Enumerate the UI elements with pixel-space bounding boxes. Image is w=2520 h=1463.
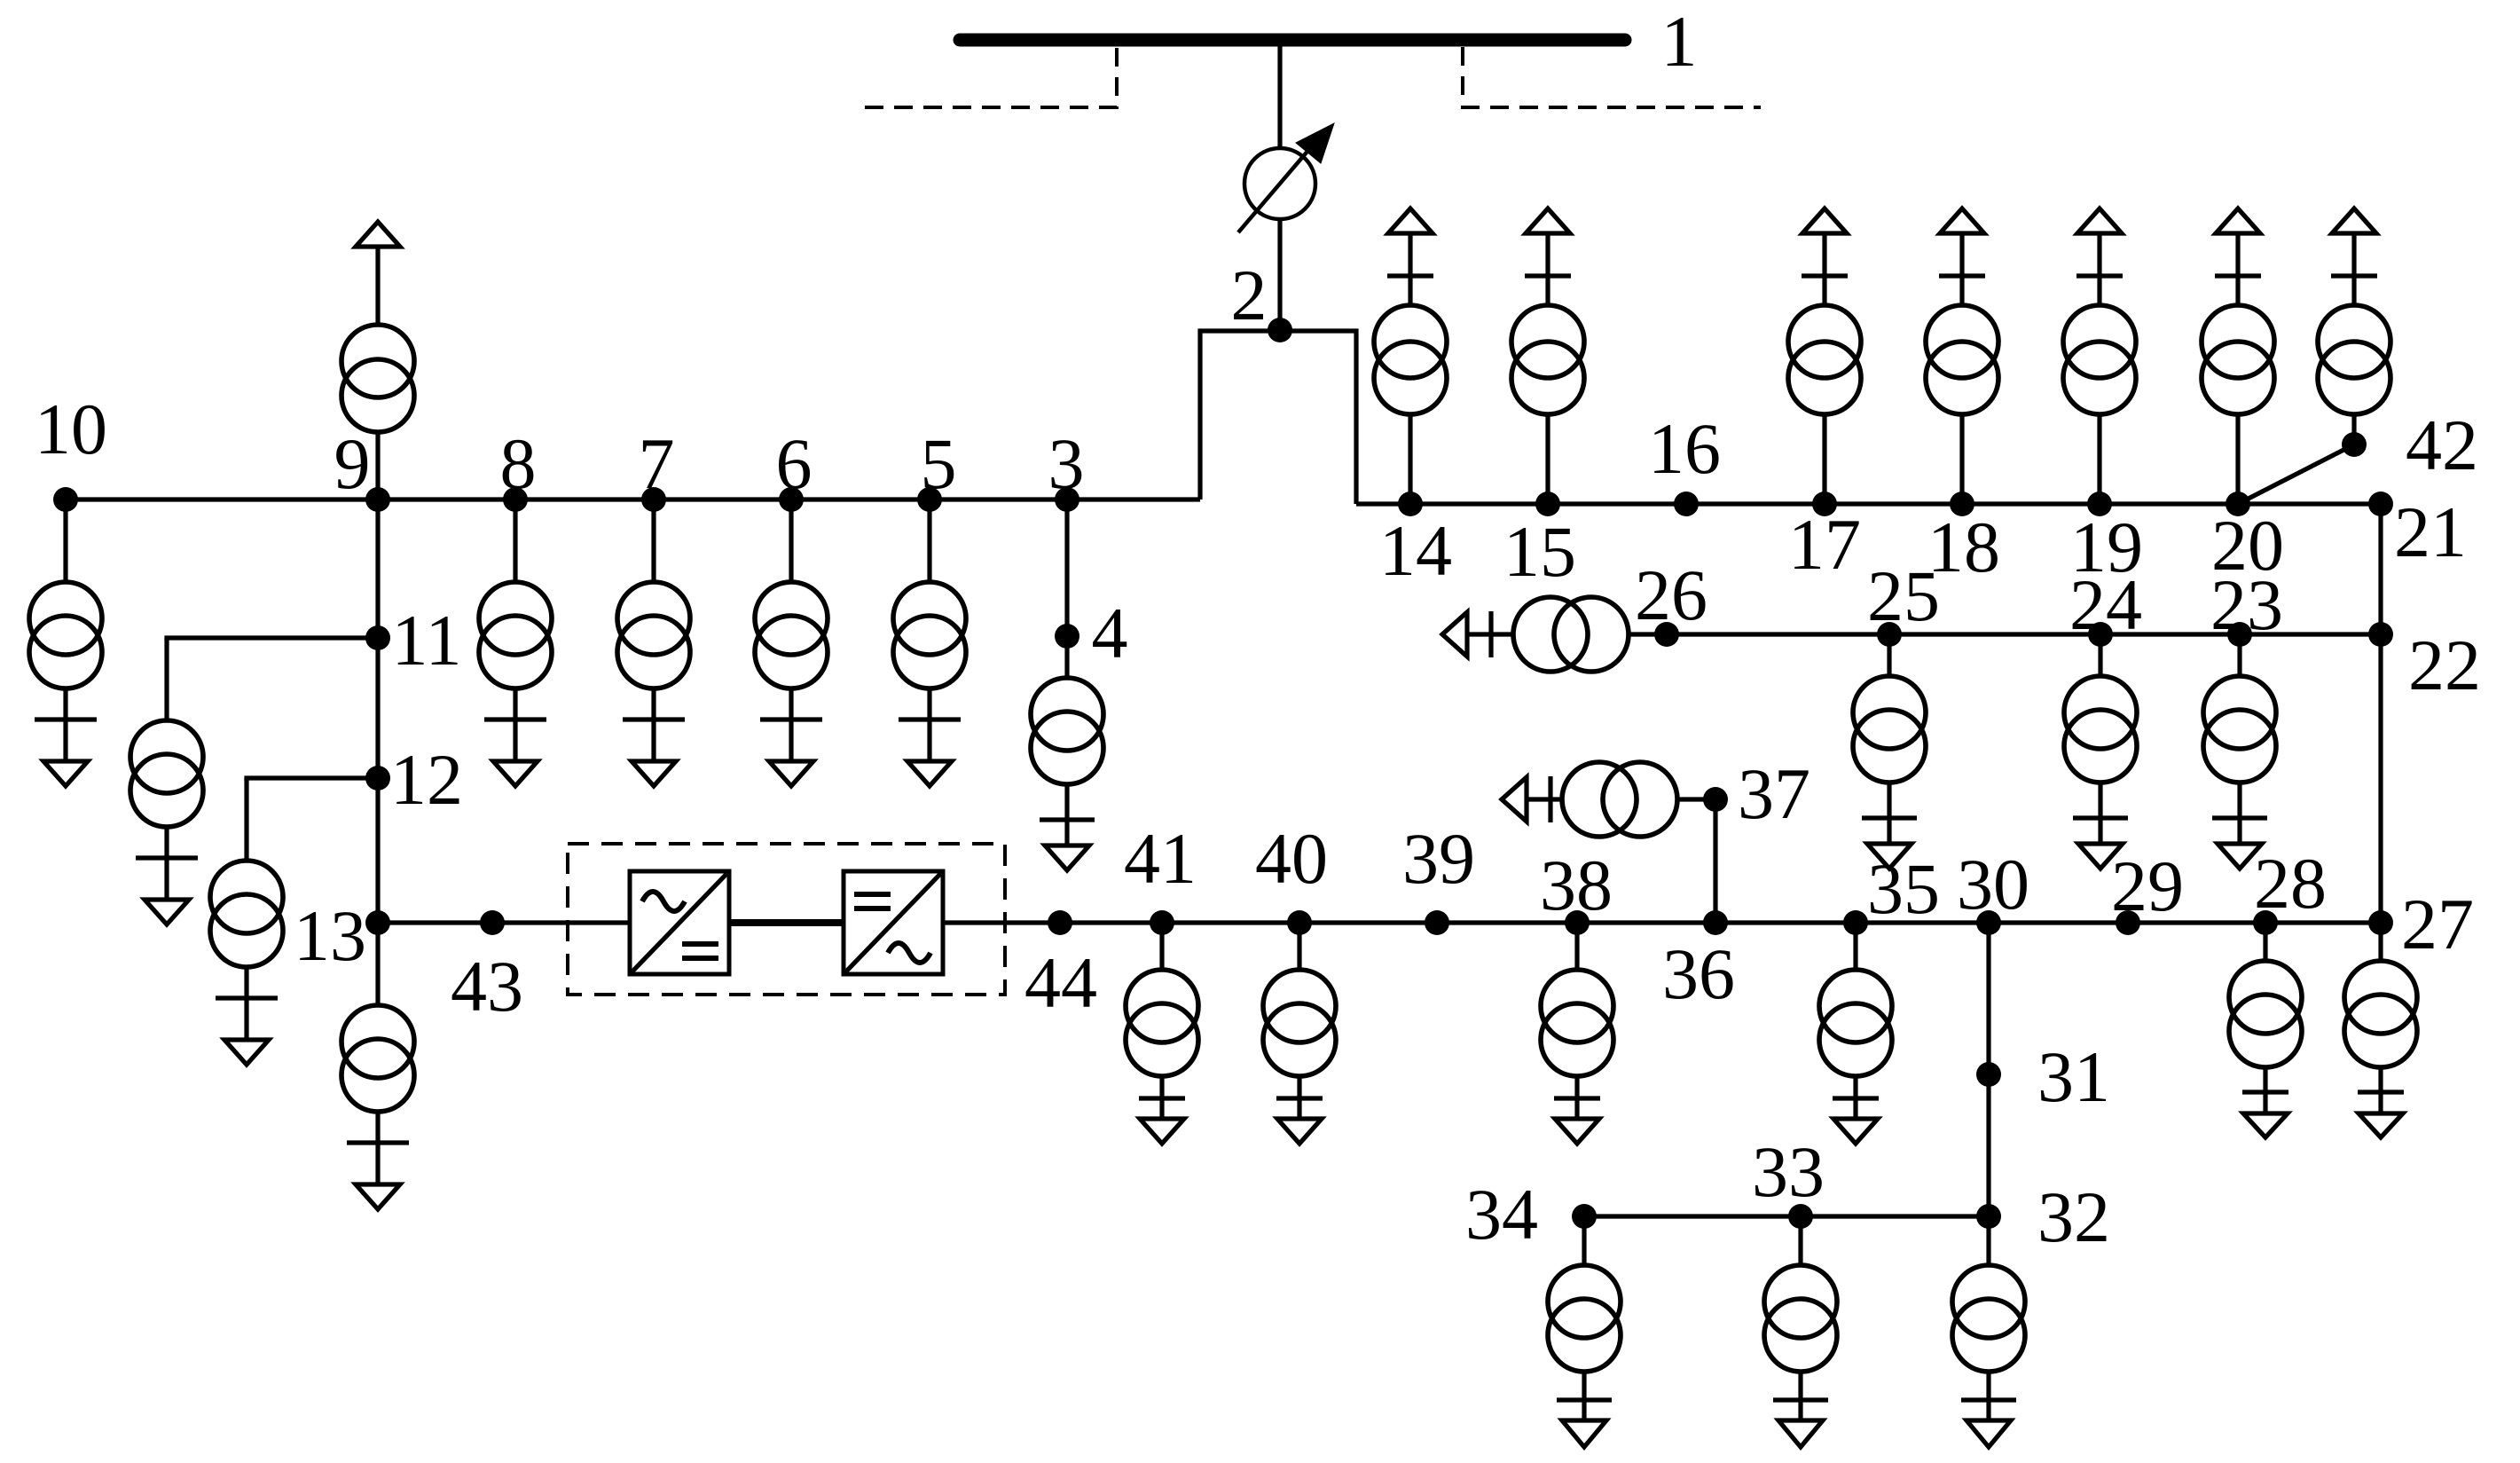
svg-text:29: 29 bbox=[2111, 846, 2184, 926]
svg-text:2: 2 bbox=[1231, 255, 1268, 335]
node 31 bbox=[1976, 1062, 2001, 1087]
svg-text:15: 15 bbox=[1503, 511, 1576, 592]
label 19 bbox=[2070, 507, 2143, 587]
svg-text:9: 9 bbox=[334, 423, 371, 504]
node 4 bbox=[1055, 624, 1079, 649]
label 29 bbox=[2111, 846, 2184, 926]
svg-text:35: 35 bbox=[1867, 848, 1940, 929]
svg-text:23: 23 bbox=[2210, 564, 2283, 645]
node 20 bbox=[2226, 492, 2250, 516]
label 31 bbox=[2037, 1036, 2110, 1117]
load transformer at node 6 bbox=[755, 499, 828, 786]
node 9 bbox=[365, 487, 390, 512]
node 5 bbox=[917, 487, 942, 512]
svg-text:32: 32 bbox=[2037, 1176, 2110, 1257]
svg-text:43: 43 bbox=[451, 946, 523, 1026]
node 39 bbox=[1425, 910, 1449, 935]
svg-text:14: 14 bbox=[1379, 510, 1452, 591]
label 41 bbox=[1124, 818, 1197, 899]
svg-text:42: 42 bbox=[2406, 405, 2478, 485]
load transformer at node 41 bbox=[1126, 923, 1198, 1144]
svg-text:26: 26 bbox=[1635, 555, 1707, 635]
node 16 bbox=[1674, 492, 1699, 516]
label 43 bbox=[451, 946, 523, 1026]
generator transformer above node 17 bbox=[1788, 208, 1861, 504]
wire node 11 branch bbox=[167, 638, 378, 641]
svg-text:33: 33 bbox=[1752, 1131, 1825, 1212]
svg-text:5: 5 bbox=[921, 423, 957, 504]
label 22 bbox=[2408, 625, 2481, 705]
node 3 bbox=[1055, 487, 1079, 512]
wire node 37 to node 36 bbox=[1713, 799, 1717, 923]
node 37 bbox=[1703, 787, 1728, 812]
label 4 bbox=[1092, 593, 1128, 673]
node 18 bbox=[1950, 492, 1974, 516]
label 27 bbox=[2401, 884, 2474, 964]
svg-text:34: 34 bbox=[1465, 1174, 1538, 1255]
svg-text:36: 36 bbox=[1662, 933, 1735, 1014]
svg-text:13: 13 bbox=[294, 895, 366, 976]
voltage regulator (OLTC) symbol bbox=[1238, 123, 1334, 232]
label 37 bbox=[1738, 753, 1810, 834]
svg-text:11: 11 bbox=[392, 600, 462, 680]
wire node 20 to node 42 bbox=[2238, 444, 2354, 504]
node 40 bbox=[1287, 910, 1312, 935]
wire second row 26-22 bbox=[1629, 632, 2381, 636]
wire bus1 to regulator bbox=[1277, 40, 1282, 149]
svg-text:6: 6 bbox=[776, 423, 813, 504]
label 16 bbox=[1648, 408, 1721, 489]
generator transformer above node 9 bbox=[341, 222, 414, 499]
wire regulator to node 2 bbox=[1277, 218, 1282, 331]
node 25 bbox=[1877, 622, 1902, 647]
load transformer at node 32 bbox=[1952, 1216, 2025, 1447]
node 6 bbox=[779, 487, 804, 512]
svg-text:39: 39 bbox=[1402, 818, 1475, 899]
node 34 bbox=[1572, 1204, 1597, 1229]
dashed box of B2B converter bbox=[568, 844, 1005, 995]
label 18 bbox=[1927, 507, 2000, 587]
generator transformer above node 14 bbox=[1374, 208, 1447, 504]
node 23 bbox=[2227, 622, 2252, 647]
svg-text:24: 24 bbox=[2069, 564, 2142, 645]
wire row 34-33-32 bbox=[1584, 1214, 1989, 1218]
wire trunk 21-22-27 bbox=[2378, 504, 2383, 923]
load transformer at node 33 bbox=[1764, 1216, 1837, 1447]
generator transformer above node 19 bbox=[2063, 208, 2136, 504]
label 21 bbox=[2394, 492, 2467, 572]
svg-text:38: 38 bbox=[1540, 845, 1613, 925]
label 20 bbox=[2211, 505, 2284, 586]
label 8 bbox=[500, 423, 537, 504]
svg-text:41: 41 bbox=[1124, 818, 1197, 899]
svg-text:12: 12 bbox=[390, 739, 463, 820]
label 12 bbox=[390, 739, 463, 820]
AC/DC converter square bbox=[630, 871, 729, 974]
label 38 bbox=[1540, 845, 1613, 925]
label 35 bbox=[1867, 848, 1940, 929]
wire right feeder 14-21 bbox=[1356, 501, 2381, 506]
load transformer at node 35 bbox=[1819, 923, 1892, 1144]
label 25 bbox=[1867, 555, 1940, 636]
node 30 bbox=[1976, 910, 2001, 935]
feeder transformer with arrow at node 26 bbox=[1442, 597, 1629, 672]
label 24 bbox=[2069, 564, 2142, 645]
node 8 bbox=[503, 487, 528, 512]
wire node 12 branch bbox=[247, 778, 378, 781]
svg-text:37: 37 bbox=[1738, 753, 1810, 834]
generator transformer above node 15 bbox=[1511, 208, 1584, 504]
load transformer at node 13 bbox=[341, 923, 414, 1209]
label 30 bbox=[1957, 844, 2029, 924]
node 17 bbox=[1812, 492, 1837, 516]
svg-text:25: 25 bbox=[1867, 555, 1940, 636]
dashed feeder stub right of bus 1 bbox=[1463, 47, 1761, 107]
svg-text:1: 1 bbox=[1661, 1, 1698, 82]
node 33 bbox=[1788, 1204, 1813, 1229]
load transformer at node 10 bbox=[29, 499, 102, 786]
generator transformer above node 42 bbox=[2318, 208, 2390, 444]
label 40 bbox=[1255, 818, 1328, 899]
label 14 bbox=[1379, 510, 1452, 591]
node 14 bbox=[1398, 492, 1423, 516]
svg-text:4: 4 bbox=[1092, 593, 1128, 673]
node 2 bbox=[1268, 318, 1292, 342]
wire bottom feeder 13-43-box bbox=[378, 920, 632, 924]
load transformer at node 4 bbox=[1031, 636, 1103, 870]
label 44 bbox=[1024, 942, 1097, 1023]
node 35 bbox=[1843, 910, 1868, 935]
node 27 bbox=[2368, 910, 2393, 935]
wire 30-31-32 bbox=[1986, 923, 1990, 1216]
load transformer at node 8 bbox=[479, 499, 552, 786]
label 36 bbox=[1662, 933, 1735, 1014]
svg-text:16: 16 bbox=[1648, 408, 1721, 489]
node 41 bbox=[1150, 910, 1174, 935]
label 39 bbox=[1402, 818, 1475, 899]
label 11 bbox=[392, 600, 462, 680]
load transformer at node 28 bbox=[2229, 923, 2302, 1137]
node 12 bbox=[365, 766, 390, 790]
load transformer at node 25 bbox=[1853, 634, 1926, 869]
svg-text:22: 22 bbox=[2408, 625, 2481, 705]
label 1 bbox=[1661, 1, 1698, 82]
svg-text:10: 10 bbox=[35, 389, 107, 469]
bus 1 (slack busbar) bbox=[960, 34, 1625, 47]
DC/AC converter square bbox=[844, 871, 943, 974]
node 21 bbox=[2368, 492, 2393, 516]
dashed feeder stub left of bus 1 bbox=[865, 47, 1117, 107]
wire left feeder 10-3 bbox=[66, 497, 1200, 501]
node 29 bbox=[2116, 910, 2140, 935]
node 22 bbox=[2368, 622, 2393, 647]
label 3 bbox=[1048, 423, 1085, 504]
wire box to bottom feeder right bbox=[943, 920, 2381, 924]
wire step node2 to right feeder bbox=[1280, 331, 1356, 504]
node 13 bbox=[365, 910, 390, 935]
load transformer at node 5 bbox=[893, 499, 966, 786]
label 2 bbox=[1231, 255, 1268, 335]
generator transformer above node 20 bbox=[2202, 208, 2274, 504]
label 9 bbox=[334, 423, 371, 504]
label 34 bbox=[1465, 1174, 1538, 1255]
node 28 bbox=[2253, 910, 2278, 935]
node 36 bbox=[1703, 910, 1728, 935]
wire 9-11-12-13 trunk bbox=[375, 499, 380, 923]
node 7 bbox=[641, 487, 666, 512]
label 32 bbox=[2037, 1176, 2110, 1257]
label 42 bbox=[2406, 405, 2478, 485]
label 10 bbox=[35, 389, 107, 469]
label 28 bbox=[2254, 843, 2327, 924]
load transformer at node 27 bbox=[2344, 923, 2417, 1137]
load transformer at node 24 bbox=[2064, 634, 2137, 869]
load transformer at node 7 bbox=[617, 499, 690, 786]
label 33 bbox=[1752, 1131, 1825, 1212]
DC link bbox=[729, 919, 844, 926]
node 32 bbox=[1976, 1204, 2001, 1229]
label 26 bbox=[1635, 555, 1707, 635]
load transformer on node 12 branch bbox=[210, 778, 283, 1065]
svg-text:31: 31 bbox=[2037, 1036, 2110, 1117]
label 6 bbox=[776, 423, 813, 504]
node 38 bbox=[1565, 910, 1590, 935]
svg-text:44: 44 bbox=[1024, 942, 1097, 1023]
label 17 bbox=[1788, 504, 1861, 585]
label 5 bbox=[921, 423, 957, 504]
label 23 bbox=[2210, 564, 2283, 645]
node 43 bbox=[480, 910, 505, 935]
svg-text:28: 28 bbox=[2254, 843, 2327, 924]
load transformer at node 34 bbox=[1548, 1216, 1621, 1447]
load transformer at node 40 bbox=[1263, 923, 1336, 1144]
node 24 bbox=[2088, 622, 2113, 647]
node 15 bbox=[1535, 492, 1560, 516]
node 19 bbox=[2087, 492, 2112, 516]
node 44 bbox=[1048, 910, 1072, 935]
generator transformer above node 18 bbox=[1926, 208, 1998, 504]
node 26 bbox=[1654, 622, 1679, 647]
wire node 3 to node 4 bbox=[1064, 499, 1069, 636]
node 10 bbox=[53, 487, 78, 512]
load transformer at node 38 bbox=[1541, 923, 1613, 1144]
wire step node2 to left feeder bbox=[1200, 331, 1280, 499]
svg-text:8: 8 bbox=[500, 423, 537, 504]
feeder transformer with arrow at node 37 bbox=[1502, 762, 1715, 837]
load transformer on node 11 branch bbox=[130, 638, 203, 924]
svg-text:40: 40 bbox=[1255, 818, 1328, 899]
label 15 bbox=[1503, 511, 1576, 592]
label 13 bbox=[294, 895, 366, 976]
svg-text:3: 3 bbox=[1048, 423, 1085, 504]
node 42 bbox=[2342, 432, 2367, 457]
label 7 bbox=[639, 423, 675, 504]
node 11 bbox=[365, 625, 390, 650]
svg-text:27: 27 bbox=[2401, 884, 2474, 964]
svg-text:7: 7 bbox=[639, 423, 675, 504]
svg-text:21: 21 bbox=[2394, 492, 2467, 572]
svg-text:17: 17 bbox=[1788, 504, 1861, 585]
svg-text:30: 30 bbox=[1957, 844, 2029, 924]
load transformer at node 23 bbox=[2203, 634, 2276, 869]
